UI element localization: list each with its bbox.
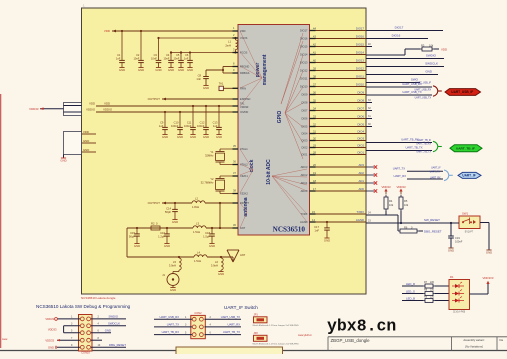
svg-text:GND: GND: [178, 68, 184, 72]
svg-text:GND: GND: [177, 135, 183, 139]
svg-text:NCS36510: NCS36510: [273, 226, 306, 234]
svg-text:management: management: [262, 54, 268, 85]
svg-text:AD2: AD2: [359, 171, 365, 175]
svg-text:TXRX: TXRX: [357, 210, 365, 214]
svg-text:UART_TB_TX: UART_TB_TX: [405, 146, 422, 150]
svg-text:DIO16: DIO16: [356, 35, 365, 39]
svg-text:J1: J1: [162, 273, 165, 277]
svg-text:GND: GND: [190, 135, 196, 139]
svg-text:56pF: 56pF: [129, 234, 135, 238]
svg-text:UART_IF: UART_IF: [431, 167, 441, 170]
svg-text:VDD33: VDD33: [48, 327, 57, 331]
svg-text:10k: 10k: [389, 203, 394, 207]
svg-text:10k: 10k: [404, 203, 409, 207]
svg-text:ANT: ANT: [240, 226, 246, 230]
svg-text:1.5pF: 1.5pF: [203, 234, 210, 238]
svg-text:UART_USB_TX: UART_USB_TX: [415, 96, 432, 99]
svg-text:GND: GND: [168, 68, 174, 72]
svg-text:AGND: AGND: [300, 220, 308, 224]
svg-text:UART_RX: UART_RX: [430, 176, 441, 179]
svg-text:RFGND: RFGND: [240, 65, 249, 69]
svg-text:DIO14: DIO14: [300, 53, 308, 57]
svg-text:VDD33: VDD33: [396, 185, 405, 189]
svg-text:GND: GND: [60, 158, 66, 162]
svg-text:SWDCLK: SWDCLK: [108, 322, 120, 326]
svg-text:100nF: 100nF: [197, 124, 205, 128]
svg-text:DIO17: DIO17: [395, 26, 404, 30]
svg-text:C19: C19: [455, 236, 460, 240]
svg-text:UART_TB_RX: UART_TB_RX: [416, 142, 431, 145]
svg-text:C1: C1: [117, 53, 121, 57]
svg-text:DIO3: DIO3: [357, 137, 364, 141]
svg-text:R6: R6: [404, 225, 408, 229]
svg-text:DIO4: DIO4: [301, 132, 308, 136]
svg-text:L2: L2: [195, 197, 198, 201]
svg-text:GND: GND: [486, 250, 492, 254]
svg-text:1nF: 1nF: [314, 229, 319, 233]
svg-text:1.5nH: 1.5nH: [193, 230, 200, 234]
svg-text:ADC3: ADC3: [301, 165, 308, 169]
svg-text:VDD: VDD: [83, 130, 89, 134]
svg-text:220: 220: [430, 281, 435, 284]
svg-text:NCS36510 Lakota dongle: NCS36510 Lakota dongle: [81, 296, 116, 300]
svg-text:Wurth Elektronik 1.27mm Jumper: Wurth Elektronik 1.27mm Jumper 2x1 WR-PH…: [253, 324, 300, 327]
svg-text:DIO6: DIO6: [301, 117, 308, 121]
svg-text:1uF: 1uF: [213, 124, 218, 128]
svg-text:GND: GND: [48, 346, 54, 350]
svg-text:3.9nH: 3.9nH: [169, 264, 176, 268]
svg-text:1nF: 1nF: [196, 77, 201, 81]
svg-text:C13: C13: [213, 120, 218, 124]
svg-text:32.768kHz: 32.768kHz: [201, 181, 215, 185]
svg-text:DIO8: DIO8: [301, 101, 308, 105]
svg-text:C16: C16: [160, 231, 165, 235]
svg-text:C18: C18: [205, 231, 210, 235]
svg-text:DIO13: DIO13: [300, 61, 308, 65]
svg-text:1nF: 1nF: [184, 57, 189, 61]
svg-text:VDD33: VDD33: [45, 317, 54, 321]
svg-text:CLV1A-FKB: CLV1A-FKB: [453, 311, 466, 314]
svg-text:100nF: 100nF: [171, 124, 179, 128]
svg-text:L4: L4: [197, 251, 200, 255]
svg-text:X32K1: X32K1: [240, 174, 248, 178]
svg-text:OUTPUT: OUTPUT: [148, 201, 161, 205]
svg-text:1.2pF: 1.2pF: [158, 234, 165, 238]
svg-text:VDD: VDD: [104, 102, 110, 106]
svg-text:TXRX: TXRX: [301, 212, 308, 216]
svg-text:UART_USB_IF: UART_USB_IF: [415, 81, 431, 84]
svg-text:VDD33: VDD33: [240, 105, 249, 109]
svg-text:UART_USB_RX: UART_USB_RX: [159, 315, 179, 319]
svg-text:NCS36510 Lakota SW Debug & Pro: NCS36510 Lakota SW Debug & Programming: [36, 304, 131, 309]
svg-text:ESPPAD: ESPPAD: [240, 97, 250, 101]
svg-text:DIO2: DIO2: [301, 146, 308, 150]
svg-text:220: 220: [430, 296, 435, 299]
svg-text:PCOS: PCOS: [240, 51, 248, 55]
svg-text:DIO10: DIO10: [300, 85, 308, 89]
svg-text:OUTPUT: OUTPUT: [148, 97, 161, 101]
svg-text:DIO7: DIO7: [357, 107, 364, 111]
svg-text:DIO1: DIO1: [301, 153, 308, 157]
svg-text:10nF: 10nF: [173, 57, 179, 61]
svg-text:SWO: SWO: [411, 78, 419, 82]
svg-text:ANT: ANT: [240, 253, 246, 257]
svg-text:UART_TB_IF: UART_TB_IF: [417, 139, 431, 142]
svg-text:DIO10: DIO10: [356, 83, 365, 87]
svg-text:AD3: AD3: [359, 163, 365, 167]
svg-text:ybx8.cn: ybx8.cn: [327, 317, 396, 336]
svg-text:C9: C9: [160, 120, 164, 124]
svg-text:VDD: VDD: [240, 29, 246, 33]
svg-text:ADC1: ADC1: [301, 181, 308, 185]
svg-text:Da: Da: [500, 338, 504, 342]
svg-text:LED_R: LED_R: [406, 282, 415, 286]
svg-text:DIO3: DIO3: [301, 139, 308, 143]
svg-text:Assembly variant:: Assembly variant:: [463, 338, 484, 342]
svg-text:1.5nH: 1.5nH: [194, 259, 201, 263]
svg-text:DIO16: DIO16: [300, 37, 308, 41]
svg-text:AD0: AD0: [359, 187, 365, 191]
svg-text:GND: GND: [105, 329, 111, 333]
svg-text:GND: GND: [425, 70, 433, 74]
svg-text:SWDCLK: SWDCLK: [425, 62, 438, 66]
svg-text:100nF: 100nF: [455, 240, 463, 244]
svg-text:VDD33: VDD33: [45, 338, 54, 342]
svg-text:DIO12: DIO12: [356, 67, 365, 71]
svg-text:R4: R4: [389, 199, 393, 203]
svg-text:C11: C11: [187, 120, 192, 124]
svg-text:GND: GND: [155, 68, 161, 72]
svg-text:100nF: 100nF: [184, 124, 192, 128]
svg-text:GND: GND: [164, 244, 170, 248]
svg-text:GND: GND: [218, 272, 224, 276]
svg-text:Wurth Elektronik 1.27mm Jumper: Wurth Elektronik 1.27mm Jumper 2x1 WR-PH…: [253, 343, 300, 346]
svg-text:D1: D1: [450, 275, 454, 279]
svg-text:L3: L3: [196, 222, 199, 226]
svg-text:Y1: Y1: [210, 150, 214, 154]
svg-text:DIO4: DIO4: [357, 130, 364, 134]
svg-text:LED_G: LED_G: [406, 289, 415, 293]
svg-text:UART_TX: UART_TX: [430, 170, 441, 173]
svg-text:VDD3V3: VDD3V3: [483, 276, 494, 280]
svg-text:32MHz: 32MHz: [205, 154, 214, 158]
svg-text:56pF: 56pF: [165, 210, 171, 214]
svg-text:C2: C2: [136, 53, 140, 57]
svg-text:VDDIO: VDDIO: [86, 108, 96, 112]
svg-text:XTAL1: XTAL1: [240, 147, 248, 151]
svg-text:C15: C15: [130, 231, 135, 235]
svg-text:C4: C4: [166, 53, 170, 57]
svg-text:GND: GND: [134, 244, 140, 248]
svg-text:DIO5: DIO5: [357, 123, 364, 127]
svg-text:UART_TB_TX: UART_TB_TX: [416, 151, 431, 154]
svg-text:VDD: VDD: [89, 102, 95, 106]
svg-text:RFOUT: RFOUT: [240, 201, 249, 205]
svg-text:UART_TB_IF: UART_TB_IF: [456, 146, 475, 150]
svg-text:GND: GND: [324, 238, 330, 242]
svg-text:UART_USB_RX: UART_USB_RX: [414, 89, 431, 92]
svg-text:R2: R2: [151, 222, 155, 226]
svg-text:JP2: JP2: [254, 332, 259, 335]
svg-text:220: 220: [430, 289, 435, 292]
svg-text:IOVDD: IOVDD: [240, 110, 248, 114]
svg-text:X32K2: X32K2: [240, 192, 248, 196]
svg-text:DIO15: DIO15: [356, 43, 365, 47]
svg-text:10k: 10k: [429, 44, 434, 48]
svg-text:UART_TX: UART_TX: [393, 167, 405, 171]
svg-text:DIO14: DIO14: [356, 51, 365, 55]
svg-text:[No Variations]: [No Variations]: [464, 345, 483, 349]
svg-text:GND: GND: [187, 68, 193, 72]
svg-text:10-bit ADC: 10-bit ADC: [266, 159, 272, 185]
svg-text:RFIN: RFIN: [240, 86, 246, 90]
svg-text:DIO1: DIO1: [357, 151, 364, 155]
svg-text:DIO5: DIO5: [301, 125, 308, 129]
svg-text:SWDIO: SWDIO: [109, 315, 119, 319]
svg-text:GND: GND: [209, 244, 215, 248]
svg-text:DIO13: DIO13: [356, 59, 365, 63]
svg-text:1.8nH: 1.8nH: [192, 205, 199, 209]
svg-text:UART_USB_TX: UART_USB_TX: [221, 315, 240, 319]
svg-text:C17: C17: [314, 225, 319, 229]
svg-text:UART_USB_IF: UART_USB_IF: [451, 90, 473, 94]
svg-text:VDD: VDD: [441, 48, 447, 52]
svg-text:3.9nH: 3.9nH: [211, 264, 218, 268]
svg-text:DIO9: DIO9: [357, 91, 364, 95]
svg-text:antenna: antenna: [243, 197, 249, 216]
svg-text:GND: GND: [83, 148, 89, 152]
svg-text:UART_IF: UART_IF: [462, 174, 476, 178]
svg-text:DIO2: DIO2: [357, 144, 364, 148]
svg-text:10nF: 10nF: [151, 57, 157, 61]
svg-text:TA1: TA1: [219, 82, 224, 86]
svg-text:GND: GND: [203, 86, 209, 90]
svg-text:R3: R3: [421, 44, 425, 48]
svg-text:UART_TB_RX: UART_TB_RX: [162, 330, 180, 334]
svg-text:LED_B: LED_B: [406, 296, 415, 300]
svg-text:C3: C3: [154, 53, 158, 57]
svg-text:GPIO: GPIO: [277, 111, 283, 124]
svg-text:DIO17: DIO17: [300, 29, 308, 33]
svg-text:DIO9: DIO9: [301, 93, 308, 97]
svg-text:GND: GND: [216, 135, 222, 139]
svg-text:SW_RESET: SW_RESET: [424, 218, 440, 222]
svg-text:CON10: CON10: [81, 351, 90, 354]
svg-text:GND: GND: [119, 68, 125, 72]
svg-text:DIO11: DIO11: [356, 75, 364, 79]
svg-text:GND: GND: [170, 288, 176, 292]
svg-text:10nF: 10nF: [133, 57, 139, 61]
svg-text:www.: www.: [2, 338, 8, 341]
svg-text:ZBGP_USB_dongle: ZBGP_USB_dongle: [331, 338, 371, 343]
svg-text:L6: L6: [215, 260, 218, 264]
svg-text:GND: GND: [203, 135, 209, 139]
svg-text:UART_RX: UART_RX: [228, 323, 241, 327]
svg-text:DIO6: DIO6: [357, 115, 364, 119]
svg-text:ADC2: ADC2: [301, 173, 308, 177]
svg-text:VDD: VDD: [104, 29, 110, 33]
svg-text:SWDIO: SWDIO: [426, 54, 437, 58]
svg-text:DIO7: DIO7: [301, 109, 308, 113]
svg-text:1nF: 1nF: [116, 57, 121, 61]
svg-text:TA1: TA1: [240, 101, 245, 105]
svg-text:GND: GND: [162, 135, 168, 139]
svg-text:10nF: 10nF: [163, 57, 169, 61]
svg-text:GND: GND: [83, 139, 89, 143]
svg-text:DBG_RESET: DBG_RESET: [109, 343, 126, 347]
svg-text:UART_TX: UART_TX: [167, 323, 179, 327]
svg-text:L1: L1: [228, 40, 231, 44]
svg-text:AGND: AGND: [356, 218, 364, 222]
svg-text:UART_IF Switch: UART_IF Switch: [224, 305, 258, 310]
svg-text:EVQ-P7: EVQ-P7: [465, 232, 474, 234]
svg-text:DBG_RESET: DBG_RESET: [424, 229, 442, 233]
svg-text:VDD33: VDD33: [381, 185, 390, 189]
svg-text:C10: C10: [174, 120, 179, 124]
svg-text:Y2: Y2: [210, 177, 214, 181]
svg-text:www.ybx8.cn: www.ybx8.cn: [298, 334, 313, 337]
svg-text:UART_RX: UART_RX: [394, 174, 407, 178]
svg-text:RFBIAS: RFBIAS: [240, 71, 250, 75]
svg-text:VCOS: VCOS: [240, 36, 248, 40]
svg-text:GND: GND: [172, 220, 178, 224]
svg-text:1uF: 1uF: [159, 124, 164, 128]
svg-text:UART_TB_TX: UART_TB_TX: [223, 330, 240, 334]
svg-text:GND: GND: [448, 248, 454, 252]
svg-text:L5: L5: [173, 260, 176, 264]
svg-text:DIO8: DIO8: [357, 99, 364, 103]
svg-text:DIO17: DIO17: [356, 27, 365, 31]
svg-text:DIO16: DIO16: [392, 34, 401, 38]
svg-text:C8: C8: [198, 74, 202, 78]
svg-text:DIO15: DIO15: [300, 45, 308, 49]
svg-text:ADC0: ADC0: [301, 189, 308, 193]
svg-text:C6: C6: [185, 53, 189, 57]
svg-text:2mH: 2mH: [225, 44, 231, 48]
svg-text:DIO11: DIO11: [300, 77, 308, 81]
svg-text:SW1: SW1: [462, 212, 469, 216]
svg-text:AD1: AD1: [359, 179, 365, 183]
svg-text:DIO12: DIO12: [300, 69, 308, 73]
svg-text:C5: C5: [176, 53, 180, 57]
svg-text:XTAL2: XTAL2: [240, 163, 248, 167]
svg-text:JP1: JP1: [254, 314, 259, 317]
svg-text:VDDIO: VDDIO: [103, 108, 113, 112]
svg-text:GND: GND: [138, 68, 144, 72]
svg-text:R5: R5: [404, 199, 408, 203]
svg-text:C14: C14: [166, 207, 171, 211]
svg-text:VDD33: VDD33: [29, 107, 39, 111]
svg-text:CON2: CON2: [194, 311, 202, 315]
svg-text:C12: C12: [200, 120, 205, 124]
